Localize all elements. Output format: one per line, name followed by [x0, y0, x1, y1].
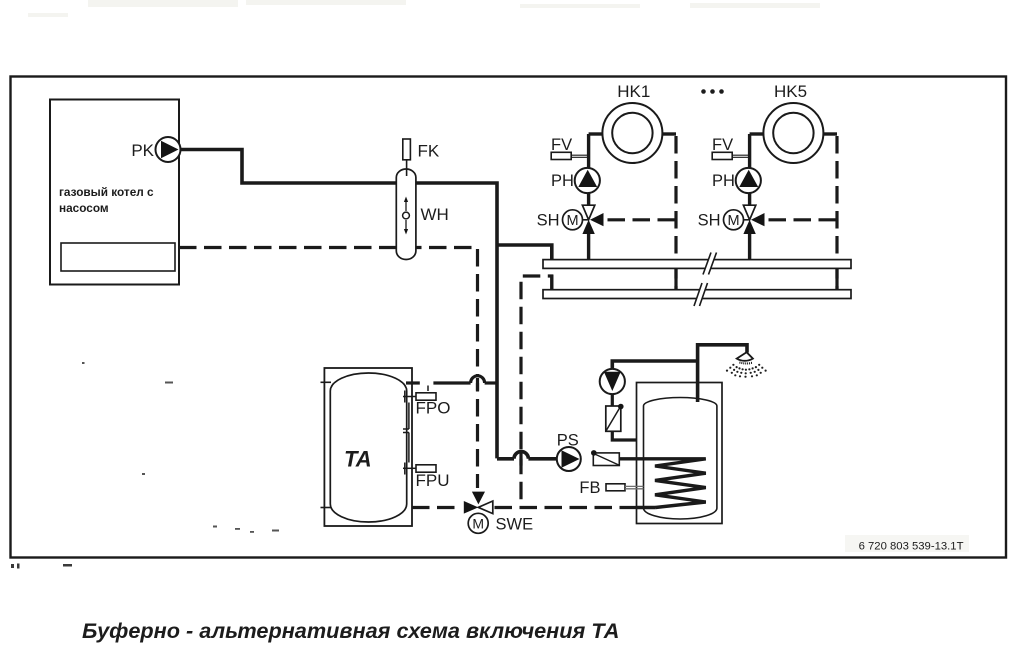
- svg-text:SWE: SWE: [496, 516, 534, 534]
- svg-text:HK1: HK1: [617, 82, 650, 101]
- svg-text:M: M: [472, 515, 484, 531]
- svg-text:FB: FB: [579, 479, 600, 497]
- svg-text:PS: PS: [557, 432, 579, 450]
- svg-text:HK5: HK5: [774, 82, 807, 101]
- svg-text:6 720 803 539-13.1T: 6 720 803 539-13.1T: [859, 541, 964, 553]
- svg-text:FV: FV: [551, 136, 572, 154]
- svg-text:FK: FK: [418, 142, 440, 161]
- svg-text:FPO: FPO: [416, 399, 451, 418]
- svg-text:M: M: [727, 213, 739, 229]
- svg-text:SH: SH: [698, 211, 721, 229]
- svg-text:газовый котел с: газовый котел с: [59, 185, 154, 199]
- svg-text:Буферно - альтернативная схема: Буферно - альтернативная схема включения…: [82, 618, 619, 643]
- svg-text:PK: PK: [131, 141, 154, 160]
- svg-text:FV: FV: [712, 136, 733, 154]
- svg-text:TA: TA: [344, 447, 372, 472]
- svg-text:M: M: [566, 213, 578, 229]
- svg-text:FPU: FPU: [416, 471, 450, 490]
- svg-text:PH: PH: [712, 172, 735, 190]
- svg-text:насосом: насосом: [59, 201, 109, 215]
- svg-text:WH: WH: [421, 205, 449, 224]
- svg-text:SH: SH: [537, 211, 560, 229]
- svg-text:PH: PH: [551, 172, 574, 190]
